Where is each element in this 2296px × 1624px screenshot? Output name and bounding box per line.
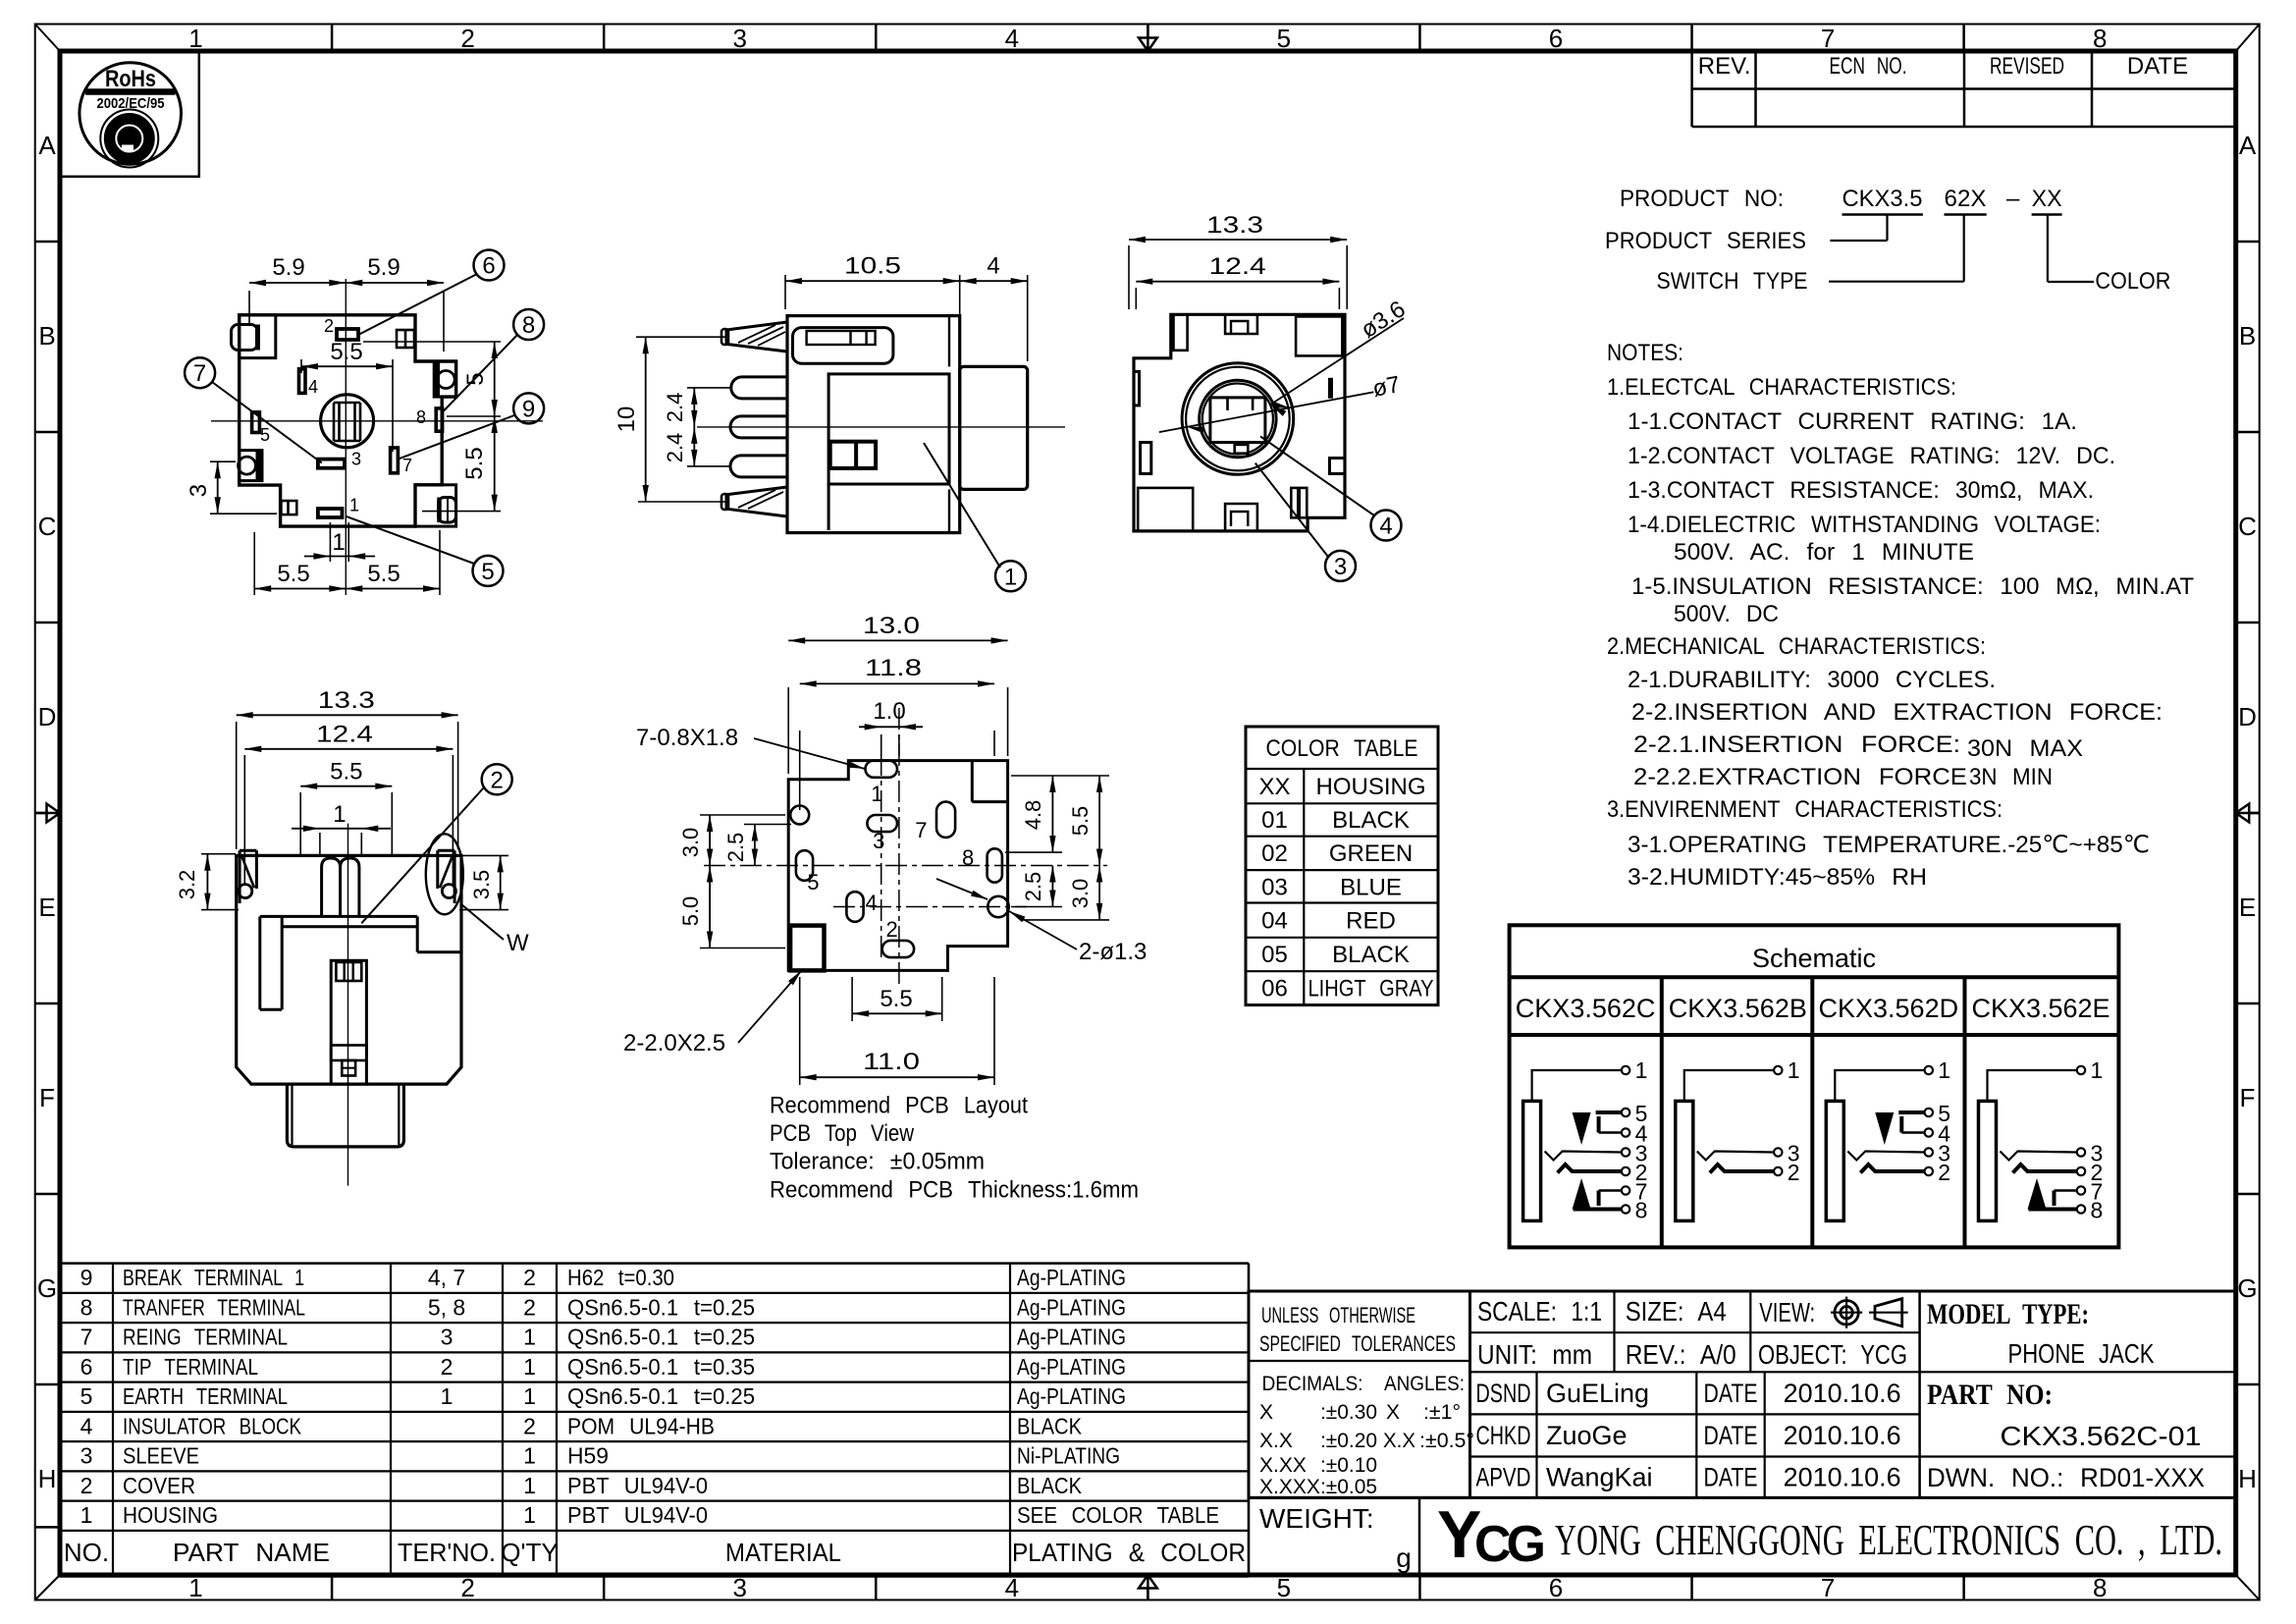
- svg-text:2010.10.6: 2010.10.6: [1784, 1463, 1901, 1492]
- svg-text:B: B: [2239, 321, 2256, 351]
- svg-text:Ag-PLATING: Ag-PLATING: [1017, 1265, 1126, 1290]
- CKX3.562B sleeve terminal: [1676, 1101, 1693, 1220]
- svg-text:11.0: 11.0: [863, 1049, 920, 1075]
- svg-text:5.5: 5.5: [1068, 806, 1093, 837]
- top-left mounting ear: [232, 325, 258, 351]
- svg-text:2.MECHANICAL CHARACTERISTICS:: 2.MECHANICAL CHARACTERISTICS:: [1607, 633, 1986, 660]
- terminal pad 5: [252, 412, 260, 433]
- svg-text:ANGLES:: ANGLES:: [1384, 1373, 1465, 1395]
- svg-text:2010.10.6: 2010.10.6: [1784, 1379, 1901, 1408]
- svg-text:H59: H59: [567, 1443, 609, 1469]
- CKX3.562D sleeve terminal: [1826, 1101, 1843, 1220]
- svg-text:5: 5: [481, 559, 494, 585]
- svg-text:4: 4: [866, 891, 878, 915]
- svg-text:PBT UL94V-0: PBT UL94V-0: [567, 1502, 708, 1528]
- svg-text:APVD: APVD: [1476, 1463, 1531, 1492]
- svg-text:10: 10: [614, 406, 640, 433]
- svg-text:2-2.2.EXTRACTION FORCE: 2-2.2.EXTRACTION FORCE: [1633, 764, 1967, 790]
- svg-text:5: 5: [260, 425, 270, 445]
- svg-text:13.0: 13.0: [863, 613, 920, 639]
- svg-text:6: 6: [80, 1354, 93, 1380]
- terminal pad 3: [318, 460, 345, 468]
- inner ledge: [260, 915, 417, 918]
- dimension 5.5 / 5.5 bottom: [253, 532, 255, 595]
- balloon 2: [482, 764, 512, 794]
- svg-text:5: 5: [807, 870, 819, 894]
- svg-text:1: 1: [523, 1354, 536, 1380]
- top cavity: [793, 328, 893, 364]
- svg-text:1.0: 1.0: [873, 698, 905, 725]
- svg-text:3: 3: [351, 450, 361, 469]
- bottom small boss: [281, 501, 296, 514]
- svg-text:W: W: [507, 930, 529, 956]
- svg-text:Ag-PLATING: Ag-PLATING: [1017, 1325, 1126, 1350]
- svg-text:1: 1: [188, 24, 202, 53]
- svg-text:03: 03: [1261, 875, 1288, 901]
- CKX3.562E ring contact pin 3: [2001, 1152, 2077, 1161]
- dimension 3.2 left: [201, 853, 236, 855]
- svg-text:GuELing: GuELing: [1546, 1379, 1649, 1408]
- view: terminal bottom view: [185, 250, 544, 596]
- notes text block: [1607, 340, 2194, 891]
- svg-text:2.4: 2.4: [663, 393, 687, 423]
- dimension 10 left: [645, 337, 647, 502]
- svg-text:REING TERMINAL: REING TERMINAL: [123, 1325, 288, 1350]
- svg-text::±0.20: :±0.20: [1320, 1430, 1377, 1452]
- svg-text:3: 3: [80, 1443, 93, 1469]
- svg-text:PHONE JACK: PHONE JACK: [2008, 1338, 2155, 1369]
- svg-text:A: A: [38, 131, 56, 160]
- svg-text:SEE COLOR TABLE: SEE COLOR TABLE: [1017, 1502, 1219, 1528]
- view: rear view: [175, 687, 529, 1186]
- svg-text:Ag-PLATING: Ag-PLATING: [1017, 1383, 1126, 1409]
- svg-text::±0.30: :±0.30: [1320, 1401, 1377, 1424]
- svg-text:1: 1: [1788, 1057, 1800, 1083]
- dimension 2.5 left: [744, 824, 791, 826]
- view: side section view: [614, 253, 1065, 592]
- centerline: [697, 426, 1065, 428]
- CKX3.562E break contact pins 7,8: [2055, 1189, 2077, 1191]
- dimension 2.4 / 2.4: [693, 388, 695, 427]
- CKX3.562D pin 1 tip contact: [1835, 1070, 1925, 1101]
- svg-text:2-2.INSERTION AND EXTRACTION: 2-2.INSERTION AND EXTRACTION FORCE:: [1631, 699, 2163, 726]
- centerlines: [211, 420, 543, 422]
- dimension 11.8: [799, 731, 801, 810]
- svg-text:6: 6: [1549, 1573, 1563, 1602]
- svg-text:8: 8: [1635, 1198, 1648, 1223]
- pad 4: [846, 892, 863, 922]
- svg-text:HOUSING: HOUSING: [1315, 774, 1425, 800]
- svg-text:4.8: 4.8: [1021, 800, 1045, 831]
- svg-text:CKX3.562D: CKX3.562D: [1819, 994, 1959, 1023]
- housing outline: [1134, 314, 1345, 531]
- svg-text:REV.: A/0: REV.: A/0: [1626, 1339, 1736, 1370]
- svg-text:SWITCH TYPE: SWITCH TYPE: [1657, 268, 1808, 295]
- CKX3.562B pin 1 tip contact: [1684, 1070, 1775, 1101]
- svg-text:2: 2: [1788, 1160, 1800, 1185]
- svg-text:1: 1: [523, 1325, 536, 1350]
- svg-text:05: 05: [1261, 942, 1288, 968]
- CKX3.562C break contact pins 5,4: [1596, 1110, 1622, 1114]
- svg-text:OBJECT: YCG: OBJECT: YCG: [1758, 1339, 1907, 1370]
- dimension 3.5 right: [459, 854, 508, 856]
- dimension 5 right: [363, 341, 501, 343]
- svg-text:2-2.0X2.5: 2-2.0X2.5: [623, 1030, 725, 1056]
- inner latch detail: [830, 442, 876, 468]
- sleeve barrel: [960, 366, 1028, 489]
- balloon 9: [513, 393, 544, 423]
- svg-text:2-ø1.3: 2-ø1.3: [1079, 939, 1147, 965]
- color table: [1246, 727, 1438, 1005]
- dimension 5.5 inner: [300, 359, 302, 373]
- svg-text:5: 5: [1277, 24, 1291, 53]
- svg-text:3.0: 3.0: [1068, 879, 1093, 909]
- svg-text:500V. DC: 500V. DC: [1674, 601, 1779, 627]
- terminal pad 7: [391, 448, 399, 473]
- svg-text:BREAK TERMINAL 1: BREAK TERMINAL 1: [123, 1265, 304, 1290]
- svg-text:QSn6.5-0.1 t=0.25: QSn6.5-0.1 t=0.25: [567, 1383, 755, 1409]
- svg-text:X.X: X.X: [1383, 1430, 1415, 1452]
- svg-text:DECIMALS:: DECIMALS:: [1262, 1373, 1363, 1395]
- schematic circuit CKX3.562C: [1523, 1057, 1648, 1223]
- balloon 1: [995, 561, 1026, 591]
- svg-text:12.4: 12.4: [1209, 253, 1266, 280]
- sleeve barrel inner: [331, 960, 366, 1084]
- svg-text:2.4: 2.4: [663, 433, 687, 463]
- svg-text:H: H: [38, 1464, 57, 1493]
- svg-text:g: g: [1396, 1543, 1412, 1573]
- dimension 3.0 left: [700, 814, 785, 816]
- svg-text:CKX3.562C-01: CKX3.562C-01: [2001, 1421, 2202, 1451]
- view: front face view: [1129, 212, 1411, 581]
- svg-text:UNIT: mm: UNIT: mm: [1477, 1339, 1592, 1370]
- dimension 13.3: [236, 722, 238, 849]
- svg-text:E: E: [2239, 893, 2256, 922]
- CKX3.562D tip spring pin 2: [1860, 1164, 1924, 1173]
- dimension 10.5: [784, 275, 786, 309]
- sleeve: [287, 1084, 403, 1147]
- CKX3.562D ring contact pin 3: [1847, 1152, 1924, 1161]
- CKX3.562E sleeve terminal: [1979, 1101, 1997, 1220]
- svg-text:4, 7: 4, 7: [428, 1265, 465, 1290]
- svg-text:3: 3: [873, 829, 884, 853]
- pin 5 (serrated): [726, 487, 787, 516]
- dimension 5.5 right: [1098, 776, 1100, 866]
- svg-text:DWN. NO.: RD01-XXX: DWN. NO.: RD01-XXX: [1927, 1463, 2205, 1492]
- svg-text:1: 1: [349, 496, 359, 515]
- svg-text:1: 1: [80, 1502, 93, 1528]
- svg-text:Schematic: Schematic: [1752, 944, 1876, 973]
- cover body: [787, 316, 960, 533]
- right pin housing: [434, 361, 455, 397]
- svg-text:2: 2: [523, 1294, 536, 1320]
- svg-text:8: 8: [416, 407, 426, 427]
- svg-text:Q'TY: Q'TY: [501, 1538, 558, 1567]
- svg-text:1-1.CONTACT CURRENT RATING:: 1-1.CONTACT CURRENT RATING: 1A.: [1628, 408, 2077, 435]
- svg-text:11.8: 11.8: [865, 655, 922, 681]
- svg-text:06: 06: [1261, 976, 1288, 1002]
- svg-text:SLEEVE: SLEEVE: [123, 1443, 199, 1469]
- svg-text:1: 1: [1635, 1057, 1648, 1083]
- svg-text:6: 6: [482, 253, 495, 280]
- svg-text:04: 04: [1261, 908, 1288, 935]
- svg-text:COLOR: COLOR: [2095, 268, 2170, 295]
- YCG company logo: [1437, 1497, 1544, 1573]
- bottom-left ear: [240, 451, 262, 481]
- svg-text:BLACK: BLACK: [1017, 1473, 1083, 1498]
- svg-text:3.ENVIRENMENT CHARACTERISTICS: 3.ENVIRENMENT CHARACTERISTICS:: [1607, 796, 2002, 823]
- svg-text:Ag-PLATING: Ag-PLATING: [1017, 1294, 1126, 1320]
- svg-text:MATERIAL: MATERIAL: [725, 1538, 841, 1567]
- svg-text:DATE: DATE: [1704, 1463, 1758, 1492]
- svg-text:62X: 62X: [1945, 186, 1987, 212]
- svg-text:XX: XX: [1258, 774, 1290, 800]
- svg-text:X: X: [1259, 1401, 1273, 1424]
- svg-text:12.4: 12.4: [316, 722, 373, 748]
- svg-text:1: 1: [333, 801, 346, 828]
- svg-text:9: 9: [80, 1265, 93, 1290]
- terminal pad 2: [337, 329, 358, 340]
- svg-text:XX: XX: [2032, 186, 2062, 212]
- hole 1.3 top-left: [790, 806, 809, 825]
- pin 2: [731, 377, 787, 399]
- CKX3.562B tip spring pin 2: [1710, 1164, 1774, 1173]
- svg-text:C: C: [38, 512, 57, 541]
- svg-text:2: 2: [460, 24, 474, 53]
- dimension 1 bottom: [329, 522, 331, 562]
- svg-text:TER'NO.: TER'NO.: [398, 1538, 496, 1567]
- svg-text:WEIGHT:: WEIGHT:: [1259, 1503, 1374, 1534]
- dimension 5.5: [299, 792, 301, 854]
- svg-text:3: 3: [441, 1325, 454, 1350]
- svg-text:7-0.8X1.8: 7-0.8X1.8: [636, 725, 738, 751]
- title block: [1249, 1291, 2236, 1575]
- svg-text:13.3: 13.3: [1206, 212, 1263, 239]
- svg-text:C: C: [2238, 512, 2257, 541]
- centerline: [347, 824, 349, 1186]
- dimension 3 left: [210, 460, 236, 462]
- svg-text:BLUE: BLUE: [1340, 875, 1402, 901]
- svg-text:3N MIN: 3N MIN: [1969, 764, 2053, 790]
- svg-text:1-5.INSULATION RESISTANCE: 1: 1-5.INSULATION RESISTANCE: 100 MΩ, MIN.A…: [1631, 573, 2194, 600]
- svg-text:NO.: NO.: [64, 1538, 109, 1567]
- left terminal pin: [239, 850, 241, 903]
- schematic circuit CKX3.562E: [1979, 1057, 2104, 1223]
- svg-text:3.5: 3.5: [469, 870, 494, 900]
- svg-text:DSND: DSND: [1476, 1379, 1531, 1408]
- pin 3: [730, 416, 787, 438]
- svg-text:5: 5: [1277, 1573, 1291, 1602]
- svg-text:Ni-PLATING: Ni-PLATING: [1017, 1443, 1120, 1469]
- parts list table: [60, 1264, 1249, 1577]
- CKX3.562C ring contact pin 3: [1545, 1152, 1622, 1161]
- svg-text:PRODUCT NO:: PRODUCT NO:: [1620, 186, 1784, 212]
- svg-text:QSn6.5-0.1 t=0.25: QSn6.5-0.1 t=0.25: [567, 1325, 755, 1350]
- svg-text:01: 01: [1261, 807, 1288, 834]
- svg-text:G: G: [37, 1273, 57, 1303]
- svg-text:YONG CHENGGONG ELECTRONICS CO.: YONG CHENGGONG ELECTRONICS CO. , LTD.: [1555, 1516, 2222, 1564]
- svg-text:1-2.CONTACT VOLTAGE RATING:: 1-2.CONTACT VOLTAGE RATING: 12V. DC.: [1628, 443, 2115, 469]
- svg-text:PART NO:: PART NO:: [1927, 1379, 2053, 1411]
- svg-text:PCB Top View: PCB Top View: [770, 1120, 915, 1147]
- product number legend: [1605, 186, 2170, 295]
- svg-text:X.XXX: X.XXX: [1259, 1476, 1320, 1498]
- svg-text:3: 3: [732, 24, 746, 53]
- CKX3.562D break contact pins 5,4: [1898, 1110, 1924, 1114]
- svg-text:02: 02: [1261, 840, 1288, 867]
- svg-text:2: 2: [523, 1265, 536, 1290]
- svg-text:DATE: DATE: [2127, 53, 2188, 80]
- pcb outline: [788, 761, 1007, 971]
- dimension 5.0 left: [700, 947, 785, 949]
- svg-text:1: 1: [2091, 1057, 2104, 1083]
- CKX3.562B ring contact pin 3: [1697, 1152, 1774, 1161]
- svg-text:8: 8: [2093, 24, 2107, 53]
- pad 2: [882, 941, 914, 957]
- first-angle projection symbol: [1835, 1301, 1858, 1325]
- svg-text:NOTES:: NOTES:: [1607, 340, 1683, 366]
- inner cavity: [828, 374, 949, 484]
- svg-text:INSULATOR BLOCK: INSULATOR BLOCK: [123, 1413, 302, 1438]
- svg-text:4: 4: [987, 253, 999, 280]
- svg-text:EARTH TERMINAL: EARTH TERMINAL: [123, 1383, 288, 1409]
- svg-text:2.5: 2.5: [1021, 872, 1045, 902]
- svg-text:3: 3: [1334, 554, 1347, 580]
- svg-text:D: D: [38, 702, 57, 731]
- svg-text:COLOR TABLE: COLOR TABLE: [1266, 735, 1418, 762]
- svg-text:5, 8: 5, 8: [428, 1294, 465, 1320]
- svg-text:2: 2: [491, 767, 504, 793]
- svg-text:13.3: 13.3: [318, 687, 375, 714]
- svg-text:BLACK: BLACK: [1332, 807, 1410, 834]
- contact opening: [1210, 398, 1265, 443]
- svg-text:5.5: 5.5: [367, 561, 400, 587]
- svg-text:7: 7: [915, 818, 927, 842]
- svg-text:MODEL TYPE:: MODEL TYPE:: [1927, 1298, 2089, 1330]
- svg-text:4: 4: [1379, 514, 1392, 540]
- svg-text:5.5: 5.5: [330, 759, 362, 785]
- svg-text:2-1.DURABILITY: 3000 CYCLES.: 2-1.DURABILITY: 3000 CYCLES.: [1628, 667, 1996, 693]
- svg-text:1: 1: [871, 782, 882, 806]
- dimension 12.4: [243, 755, 245, 886]
- svg-text:POM UL94-HB: POM UL94-HB: [567, 1413, 715, 1438]
- svg-text:8: 8: [522, 312, 535, 339]
- svg-text:CKX3.562B: CKX3.562B: [1669, 994, 1807, 1023]
- svg-text:4: 4: [308, 377, 318, 397]
- corner keepout 2.0x2.5: [790, 926, 824, 971]
- inspection ellipse W: [426, 834, 463, 914]
- svg-text:REVISED: REVISED: [1990, 53, 2064, 80]
- svg-text:5.9: 5.9: [272, 254, 304, 281]
- CKX3.562E tip spring pin 2: [2013, 1164, 2077, 1173]
- center sleeve hole: [321, 395, 374, 448]
- dimension 5.5 right: [422, 511, 501, 513]
- svg-text:1: 1: [523, 1473, 536, 1498]
- svg-text:–: –: [2006, 186, 2020, 212]
- svg-text:2010.10.6: 2010.10.6: [1784, 1421, 1901, 1450]
- schematic table: [1510, 925, 2119, 1247]
- svg-text:500V. AC. for 1 MINUTE: 500V. AC. for 1 MINUTE: [1674, 539, 1974, 566]
- terminal pad 1: [318, 509, 343, 517]
- cover outline: [237, 855, 461, 1084]
- svg-text:COVER: COVER: [123, 1473, 195, 1498]
- center prongs: [322, 858, 341, 916]
- CKX3.562C pin 1 tip contact: [1532, 1070, 1623, 1101]
- svg-text:RoHs: RoHs: [105, 66, 156, 92]
- svg-text:DATE: DATE: [1704, 1421, 1758, 1450]
- svg-text:2-2.1.INSERTION FORCE:: 2-2.1.INSERTION FORCE:: [1633, 731, 1960, 758]
- balloon 5: [473, 556, 504, 586]
- svg-text:UNLESS OTHERWISE: UNLESS OTHERWISE: [1261, 1303, 1415, 1327]
- lower cavity: [828, 484, 830, 530]
- dimension 5.5 bottom: [851, 977, 853, 1021]
- sleeve circles: [1182, 363, 1294, 475]
- svg-text:LIHGT GRAY: LIHGT GRAY: [1308, 976, 1434, 1002]
- svg-text:SCALE: 1:1: SCALE: 1:1: [1477, 1296, 1602, 1326]
- balloon 3: [1325, 551, 1356, 581]
- dimension 13.3: [1128, 245, 1130, 309]
- pad 7: [936, 802, 955, 838]
- svg-text:1: 1: [523, 1383, 536, 1409]
- svg-text:3-2.HUMIDTY:45~85% RH: 3-2.HUMIDTY:45~85% RH: [1628, 864, 1927, 891]
- side pads: [1134, 371, 1140, 406]
- svg-text:8: 8: [2091, 1198, 2104, 1223]
- svg-text:7: 7: [193, 360, 206, 387]
- svg-text:2: 2: [886, 917, 898, 942]
- terminal pad 8: [436, 408, 442, 431]
- bottom tabs: [1138, 488, 1193, 531]
- housing outline: [240, 315, 456, 526]
- svg-text:6: 6: [1549, 24, 1563, 53]
- terminal pad 4: [299, 369, 306, 394]
- svg-text:5.5: 5.5: [277, 561, 309, 587]
- svg-text:B: B: [38, 321, 55, 351]
- dimension 1.0: [881, 734, 882, 756]
- svg-text:GREEN: GREEN: [1329, 840, 1413, 867]
- svg-text:A: A: [2239, 131, 2257, 160]
- balloon 6: [474, 250, 505, 281]
- RoHs logo box: [60, 51, 199, 177]
- svg-text:5.5: 5.5: [330, 339, 362, 365]
- svg-text:X: X: [1386, 1401, 1400, 1424]
- svg-text:3.2: 3.2: [175, 870, 199, 900]
- svg-text:Recommend PCB Thickness:1.6m: Recommend PCB Thickness:1.6mm: [770, 1176, 1139, 1203]
- top tabs: [1174, 314, 1188, 351]
- svg-text:3.0: 3.0: [678, 828, 703, 858]
- diameter 7 callout: [1159, 392, 1374, 432]
- top-right notch: [397, 330, 414, 348]
- svg-text:5.5: 5.5: [461, 447, 488, 479]
- svg-text:1-4.DIELECTRIC WITHSTANDING: 1-4.DIELECTRIC WITHSTANDING VOLTAGE:: [1628, 512, 2101, 538]
- svg-text:PART NAME: PART NAME: [173, 1538, 330, 1567]
- schematic circuit CKX3.562D: [1826, 1057, 1950, 1220]
- svg-text:DATE: DATE: [1704, 1379, 1758, 1408]
- svg-text:F: F: [2240, 1083, 2256, 1112]
- svg-text:5: 5: [80, 1383, 93, 1409]
- svg-text:3-1.OPERATING TEMPERATURE.-25: 3-1.OPERATING TEMPERATURE.-25℃~+85℃: [1628, 832, 2150, 858]
- svg-text:1.ELECTCAL CHARACTERISTICS:: 1.ELECTCAL CHARACTERISTICS:: [1607, 374, 1956, 401]
- svg-text:2: 2: [80, 1473, 93, 1498]
- svg-text:CKX3.562C: CKX3.562C: [1516, 994, 1656, 1023]
- svg-text::±0.10: :±0.10: [1320, 1454, 1377, 1477]
- dimension 2.5 right: [1011, 906, 1062, 908]
- svg-text:Recommend PCB Layout: Recommend PCB Layout: [770, 1093, 1028, 1119]
- svg-text:X.X: X.X: [1259, 1430, 1293, 1452]
- CKX3.562E pin 1 tip contact: [1988, 1070, 2078, 1101]
- right terminal pin: [436, 850, 439, 889]
- svg-text:10.5: 10.5: [844, 253, 901, 280]
- balloon 7: [185, 357, 215, 388]
